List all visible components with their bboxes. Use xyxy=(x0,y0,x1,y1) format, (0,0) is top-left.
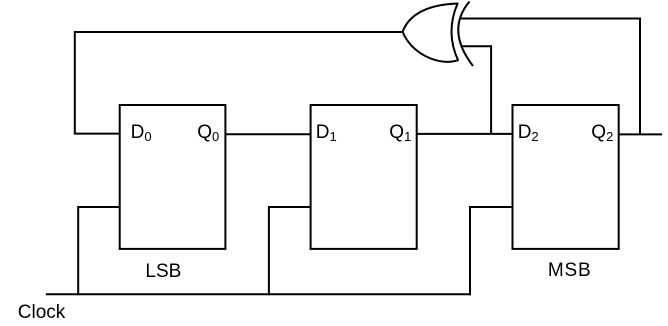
xor gate U1 body (mirrored, output at left) xyxy=(403,4,458,62)
flip-flop FF0 (LSB) box xyxy=(120,105,226,249)
wire: Q2 feedback vertical at right xyxy=(639,19,641,135)
wire: Q2 output horizontal (with stub past junction) xyxy=(619,133,662,135)
wire: XOR lower input vertical drop to Q1-D2 net xyxy=(490,45,492,134)
wire: feedback top-right horizontal to XOR upper input xyxy=(460,18,641,20)
wire: feedback vertical down to D0 input xyxy=(74,31,76,134)
wire: clock bus horizontal xyxy=(46,293,471,295)
wire: Q0 to D1 xyxy=(225,133,310,135)
wire: feedback top horizontal (XOR output to node above D0) xyxy=(75,31,404,33)
wire: D0 input horizontal xyxy=(74,133,120,135)
wire: Q1 to D2 xyxy=(417,133,513,135)
xor gate U1 input-side second arc xyxy=(458,2,473,67)
flip-flop FF1 box xyxy=(311,105,417,249)
wire: clock to FF0 xyxy=(78,207,120,295)
flip-flop FF2 (MSB) box xyxy=(513,105,619,249)
wire: clock to FF2 xyxy=(470,207,513,295)
svg-text:Clock: Clock xyxy=(18,302,66,323)
svg-text:MSB: MSB xyxy=(548,260,592,281)
wire: clock to FF1 xyxy=(269,207,311,295)
wire: XOR lower input horizontal xyxy=(461,45,492,47)
svg-text:LSB: LSB xyxy=(145,261,181,282)
